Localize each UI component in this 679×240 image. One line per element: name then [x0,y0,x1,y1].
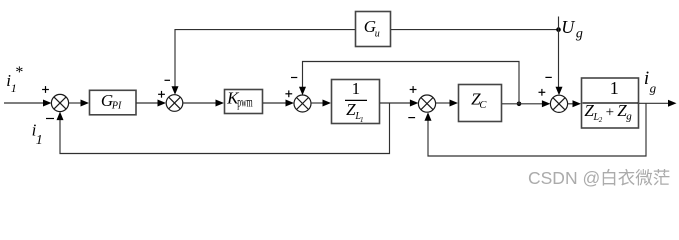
sign - at S5 [545,76,551,78]
label i1* input [6,64,23,95]
wire S4 to ZC [436,100,458,107]
wire Gu feedforward to S2 [172,30,356,95]
label i1 feedback [32,121,43,148]
svg-text:PI: PI [111,101,122,112]
wire S1 to GPI [69,100,89,107]
block 1/(Z_L2+Z_g) [582,78,639,128]
sign + at S4 [410,86,417,93]
wire S2 to Kpwm [183,100,224,107]
svg-text:CSDN @白衣微茫: CSDN @白衣微茫 [528,168,670,188]
wire ZC to S5 [502,100,550,107]
svg-text:2: 2 [599,116,603,124]
svg-text:i: i [644,68,649,89]
summing junction S3 [294,95,311,112]
wire output i_g [639,100,677,107]
label i_g [644,68,657,96]
svg-text:C: C [479,100,487,111]
svg-text:g: g [626,110,632,122]
node Ug dot [556,27,561,32]
sign + at S2 [158,91,165,98]
svg-text:+: + [606,105,614,121]
block G_u [356,12,391,47]
sign - at S1 [46,118,54,120]
svg-text:1: 1 [36,133,43,148]
block G_PI [90,90,137,115]
sign - at S3 [291,77,297,79]
wire ig feedback to S4 [425,103,647,156]
svg-text:U: U [561,17,575,37]
node Uc dot [517,102,522,107]
summing junction S5 [550,95,567,112]
sign + at S1 [42,86,49,93]
svg-text:u: u [375,28,380,39]
summing junction S1 [51,94,68,111]
block 1/Z_L1 [332,79,380,124]
svg-text:g: g [650,80,657,95]
wire i1 feedback to S1 [57,103,390,154]
wire Kpwm to S3 [263,100,294,107]
summing junction S2 [166,95,183,112]
svg-text:*: * [15,64,23,81]
svg-text:g: g [576,26,583,41]
sign - at S4 [408,117,415,119]
sign - at S2 [165,79,171,81]
wire Gu to Ug node [391,29,559,31]
svg-text:1: 1 [360,116,364,124]
block Z_C [459,85,502,122]
sign + at S5 [539,89,546,96]
wire Ug down to S5 [556,17,563,96]
wire Uc feedback to S3 [299,62,519,104]
block K_pwm [225,89,263,114]
sign + at S3 [285,90,292,97]
label U_g [561,17,583,41]
wire S5 to ZL2 block [568,100,581,107]
wire GPI to S2 [136,100,166,107]
svg-text:1: 1 [11,81,17,95]
summing junction S4 [418,95,435,112]
svg-text:1: 1 [610,78,619,98]
svg-text:1: 1 [352,79,361,98]
wire input to S1 [4,100,52,107]
wire S3 to ZL1 block [311,100,331,107]
svg-text:pwm: pwm [237,95,253,110]
wire ZL1 to S4 [380,100,418,107]
